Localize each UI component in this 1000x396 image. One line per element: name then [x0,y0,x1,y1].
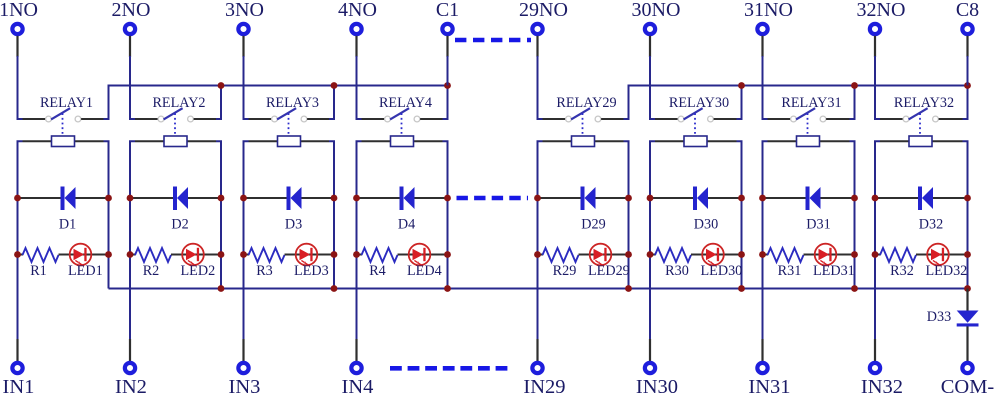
terminal 31NO [744,0,793,34]
svg-text:D29: D29 [581,217,605,233]
svg-text:R3: R3 [256,263,273,279]
svg-text:1NO: 1NO [0,0,38,21]
relay coil RELAY31 [768,136,850,147]
junction: top bus at x=221 [218,82,225,89]
wire: coil32 left leg down to IN32 [875,141,880,361]
diode D31 (flyback) [763,187,855,233]
junction: D31 right [851,195,858,202]
terminal IN29 [523,363,565,396]
resistor R29 [538,248,579,279]
wire: relay29 common contact riser to bus [601,86,628,120]
relay RELAY29 switch contact [556,95,616,134]
resistor R3 [244,248,285,279]
svg-text:LED1: LED1 [68,263,103,279]
junction: D2 right [218,195,225,202]
terminal 2NO [112,0,151,34]
svg-text:RELAY4: RELAY4 [379,95,432,111]
bus continuation dashes (channels 5-28) bottom row [390,366,511,371]
svg-text:31NO: 31NO [744,0,793,21]
wire: right NO-common bus (relays 29-32 to C8) [629,86,968,120]
junction: LED4 right [444,251,451,258]
junction: D4 right [444,195,451,202]
svg-text:29NO: 29NO [519,0,568,21]
svg-text:LED2: LED2 [181,263,216,279]
relay RELAY1 switch contact [40,95,93,134]
junction: top bus at x=854.5 [851,82,858,89]
svg-text:C8: C8 [956,0,979,21]
junction: D30 left [647,195,654,202]
svg-text:D31: D31 [806,217,830,233]
wire: 32NO drop to relay32 NO contact [875,36,903,119]
svg-text:IN2: IN2 [115,376,147,396]
svg-text:D2: D2 [171,217,188,233]
svg-text:4NO: 4NO [338,0,377,21]
svg-text:RELAY31: RELAY31 [781,95,841,111]
resistor R31 [763,248,804,279]
wire: coil29 left leg down to IN29 [538,141,543,361]
svg-text:30NO: 30NO [632,0,681,21]
wire: 4NO drop to relay4 NO contact [357,36,385,119]
terminal 1NO [0,0,38,34]
junction: bottom bus at x=628.5 [625,285,632,292]
wire: 31NO drop to relay31 NO contact [763,36,791,119]
svg-text:LED29: LED29 [588,263,630,279]
terminal 4NO [338,0,377,34]
junction: D1 left [14,195,21,202]
diode D29 (flyback) [538,187,629,233]
terminal 30NO [632,0,681,34]
svg-text:RELAY29: RELAY29 [556,95,616,111]
terminal IN4 [342,363,374,396]
bus continuation dashes (channels 5-28) middle row [457,196,529,201]
relay coil RELAY4 [362,136,443,147]
LED LED31 [804,244,855,279]
junction: D1 right [105,195,112,202]
svg-text:LED31: LED31 [813,263,855,279]
junction: D3 left [240,195,247,202]
wire: coil30 left leg down to IN30 [650,141,655,361]
wire: relay30 common contact riser to bus [714,86,742,120]
svg-text:IN4: IN4 [342,376,374,396]
diode D4 (flyback) [357,187,448,233]
wire: C8 drop to bus [966,36,968,86]
wire: coil4 right leg down to COM- bus [443,141,448,288]
relay coil RELAY32 [880,136,963,147]
wire: C1 drop to bus [446,36,448,86]
relay coil RELAY1 [23,136,104,147]
resistor R4 [357,248,398,279]
junction: R30 left [647,251,654,258]
resistor R30 [650,248,691,279]
junction: D29 right [625,195,632,202]
svg-text:LED3: LED3 [294,263,329,279]
relay coil RELAY29 [543,136,624,147]
terminal IN1 [3,363,35,396]
junction: LED29 right [625,251,632,258]
junction: R32 left [872,251,879,258]
relay RELAY4 switch contact [379,95,432,134]
svg-text:RELAY3: RELAY3 [266,95,319,111]
svg-text:LED32: LED32 [926,263,968,279]
wire: 1NO drop to relay1 NO contact [18,36,46,119]
svg-text:R1: R1 [30,263,47,279]
junction: D4 left [353,195,360,202]
diode D2 (flyback) [130,187,221,233]
wire: 29NO drop to relay29 NO contact [538,36,566,119]
wire: coil4 left leg down to IN4 [357,141,362,361]
svg-text:IN1: IN1 [3,376,35,396]
junction: LED32 right [964,251,971,258]
junction: D31 left [759,195,766,202]
wire: coil1 left leg down to IN1 [18,141,23,361]
LED LED32 [916,244,968,279]
svg-text:2NO: 2NO [112,0,151,21]
terminal 32NO [857,0,906,34]
junction: D29 left [534,195,541,202]
terminal 3NO [225,0,264,34]
junction: bottom bus at x=221 [218,285,225,292]
junction: bottom bus at x=854.5 [851,285,858,292]
junction: D32 left [872,195,879,202]
svg-text:32NO: 32NO [857,0,906,21]
relay RELAY31 switch contact [781,95,841,134]
wire: coil32 right leg down to COM- bus [963,141,968,288]
wire: relay31 common contact riser to bus [826,86,854,120]
wire: coil3 right leg down to COM- bus [329,141,334,288]
junction: bottom bus at x=741.5 [738,285,745,292]
resistor R1 [18,248,59,279]
svg-text:IN3: IN3 [229,376,261,396]
diode D3 (flyback) [244,187,335,233]
wire: relay2 common contact riser to bus [194,86,221,120]
LED LED29 [579,244,630,279]
svg-text:R31: R31 [778,263,802,279]
junction: R1 left [14,251,21,258]
resistor R2 [130,248,171,279]
wire: coil30 right leg down to COM- bus [737,141,742,288]
wire: relay3 common contact riser to bus [307,86,334,120]
svg-text:RELAY1: RELAY1 [40,95,93,111]
resistor R32 [875,248,916,279]
relay RELAY30 switch contact [669,95,729,134]
junction: R3 left [240,251,247,258]
junction: R4 left [353,251,360,258]
wire: coil31 left leg down to IN31 [763,141,768,361]
relay coil RELAY3 [249,136,330,147]
svg-text:D33: D33 [927,309,951,325]
terminal IN31 [748,363,790,396]
wire: relay32 common contact riser to bus [939,86,968,120]
relay RELAY32 switch contact [894,95,954,134]
junction: top bus at x=334 [331,82,338,89]
wire: relay1 common contact riser to bus [81,86,108,120]
relay RELAY3 switch contact [266,95,319,134]
svg-text:RELAY2: RELAY2 [152,95,205,111]
LED LED30 [691,244,742,279]
wire: coil31 right leg down to COM- bus [850,141,855,288]
junction: bottom bus at x=967.5 [964,285,971,292]
relay coil RELAY30 [655,136,737,147]
junction: LED31 right [851,251,858,258]
svg-text:D32: D32 [919,217,943,233]
junction: bottom bus at x=334 [331,285,338,292]
svg-text:IN29: IN29 [523,376,565,396]
junction: top bus at x=967.5 [964,82,971,89]
junction: LED1 right [105,251,112,258]
terminal IN32 [861,363,903,396]
svg-text:R4: R4 [369,263,386,279]
svg-text:D30: D30 [694,217,718,233]
svg-text:D3: D3 [285,217,302,233]
junction: R29 left [534,251,541,258]
diode D1 (flyback) [18,187,109,233]
junction: top bus at x=447.5 [444,82,451,89]
svg-text:R2: R2 [143,263,160,279]
terminal COM- [941,363,995,396]
wire: coil3 left leg down to IN3 [244,141,249,361]
wire: relay4 common contact riser to bus [420,86,447,120]
wire: coil1 right leg down to COM- bus [104,141,109,288]
svg-text:COM-: COM- [941,376,995,396]
wire: coil29 right leg down to COM- bus [624,141,629,288]
LED LED1 [59,244,109,279]
relay RELAY2 switch contact [152,95,205,134]
svg-text:RELAY30: RELAY30 [669,95,729,111]
wire: left NO-common bus (relays 1-4 to C1) [109,86,448,120]
svg-text:R29: R29 [553,263,577,279]
junction: LED2 right [218,251,225,258]
terminal C1 [436,0,459,34]
diode D33 (series on COM-) [927,289,979,362]
wire: coil2 left leg down to IN2 [130,141,135,361]
svg-text:D1: D1 [59,217,76,233]
terminal 29NO [519,0,568,34]
diode D32 (flyback) [875,187,968,233]
junction: R2 left [127,251,134,258]
junction: top bus at x=741.5 [738,82,745,89]
wire: 3NO drop to relay3 NO contact [244,36,272,119]
wire: bottom COM- return bus [109,288,968,290]
terminal IN3 [229,363,261,396]
LED LED2 [171,244,221,279]
terminal IN30 [636,363,678,396]
diode D30 (flyback) [650,187,742,233]
svg-text:R30: R30 [665,263,689,279]
junction: bottom bus at x=447.5 [444,285,451,292]
svg-text:IN30: IN30 [636,376,678,396]
svg-text:3NO: 3NO [225,0,264,21]
svg-text:IN31: IN31 [748,376,790,396]
junction: LED3 right [331,251,338,258]
relay coil RELAY2 [135,136,216,147]
wire: coil2 right leg down to COM- bus [216,141,221,288]
junction: R31 left [759,251,766,258]
junction: LED30 right [738,251,745,258]
junction: D32 right [964,195,971,202]
junction: D30 right [738,195,745,202]
svg-text:LED4: LED4 [407,263,442,279]
bus continuation dashes (channels 5-28) top row [455,38,531,43]
svg-text:R32: R32 [890,263,914,279]
svg-text:IN32: IN32 [861,376,903,396]
wire: 30NO drop to relay30 NO contact [650,36,678,119]
svg-text:LED30: LED30 [701,263,743,279]
terminal IN2 [115,363,147,396]
svg-text:C1: C1 [436,0,459,21]
svg-text:D4: D4 [398,217,415,233]
svg-text:RELAY32: RELAY32 [894,95,954,111]
LED LED4 [398,244,448,279]
wire: 2NO drop to relay2 NO contact [130,36,158,119]
terminal C8 [956,0,979,34]
junction: D3 right [331,195,338,202]
junction: D2 left [127,195,134,202]
LED LED3 [285,244,335,279]
